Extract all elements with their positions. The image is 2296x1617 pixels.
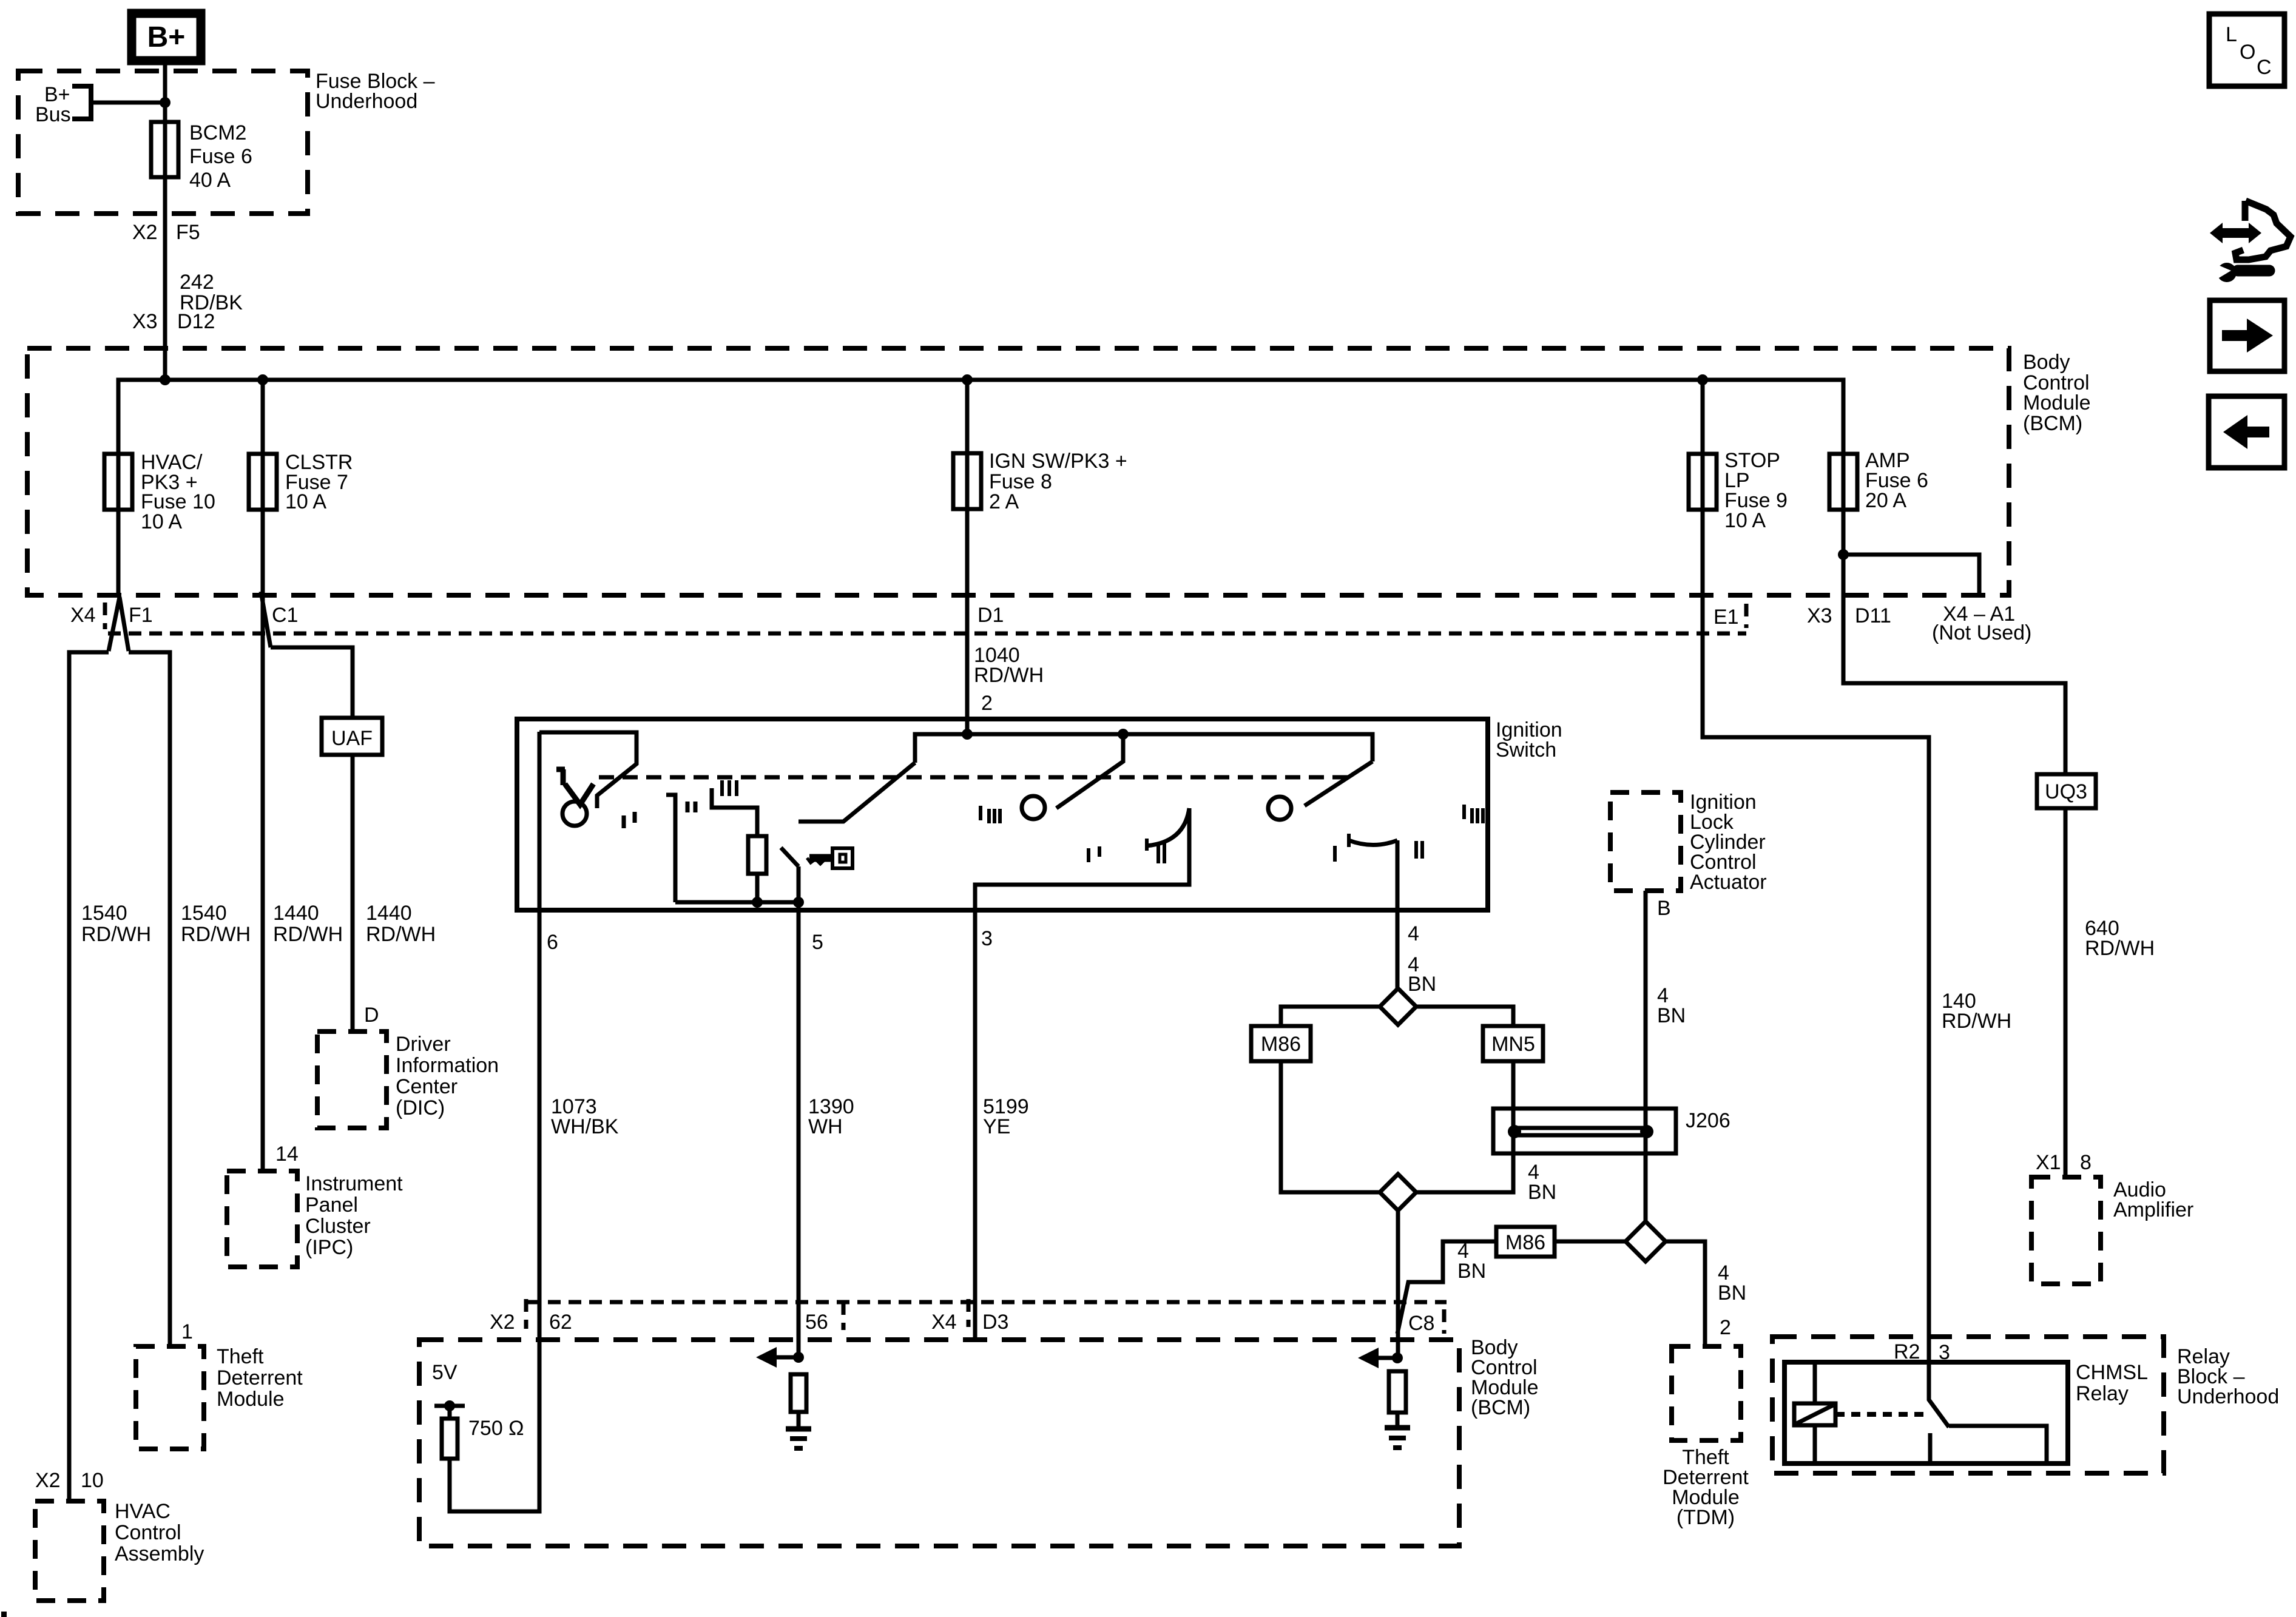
svg-text:BN: BN <box>1408 973 1436 996</box>
svg-text:B: B <box>1657 897 1671 920</box>
wire to ground 56 <box>797 1412 801 1428</box>
module box Audio Amplifier <box>2031 1177 2193 1284</box>
wire label 640 RD/WH <box>2085 917 2155 960</box>
svg-text:Switch: Switch <box>1496 738 1556 761</box>
ignition switch box <box>517 719 1488 910</box>
svg-text:X4: X4 <box>70 604 96 627</box>
svg-text:M86: M86 <box>1505 1231 1545 1254</box>
wire actuator B to diamond3 <box>1644 891 1648 1221</box>
svg-text:C: C <box>2257 56 2272 79</box>
position ticks III section4 <box>1464 805 1483 823</box>
svg-text:L: L <box>2226 23 2237 46</box>
ground BCM 56 <box>786 1429 811 1448</box>
fuse STOP LP Fuse 9 <box>1689 449 1788 532</box>
svg-text:Underhood: Underhood <box>316 90 417 113</box>
wire label 1440 RD/WH (right) <box>366 902 436 946</box>
label Relay Block Underhood <box>2177 1345 2279 1408</box>
svg-text:IGN SW/PK3 +: IGN SW/PK3 + <box>989 450 1127 473</box>
junction dot resistor <box>752 897 763 908</box>
wire M86 down to diamond2 <box>1281 1061 1380 1192</box>
common circle section4 <box>1268 797 1291 820</box>
svg-text:2 A: 2 A <box>989 490 1019 513</box>
contact arc section4 <box>1349 840 1397 845</box>
svg-text:D11: D11 <box>1855 604 1891 627</box>
wire UAF to DIC <box>351 755 355 1031</box>
node 5V <box>432 1361 465 1419</box>
wire diamond3 to TDM pin2 <box>1666 1241 1705 1346</box>
connector tick X4 <box>967 1299 971 1327</box>
relay block dashed box <box>1772 1337 2164 1473</box>
key release icon <box>556 769 593 805</box>
resistor BCM C8 <box>1389 1371 1406 1413</box>
wire pin3 <box>975 808 1189 1340</box>
svg-text:Instrument: Instrument <box>305 1172 403 1195</box>
svg-text:RD/WH: RD/WH <box>1942 1010 2011 1033</box>
switch contact stub section2 <box>781 848 799 866</box>
wire B+ to bus <box>163 61 167 380</box>
switch lever section2 <box>799 763 915 822</box>
svg-text:E1: E1 <box>1714 606 1739 629</box>
svg-text:242: 242 <box>180 271 214 294</box>
svg-text:62: 62 <box>549 1311 572 1334</box>
svg-text:10 A: 10 A <box>1724 509 1766 532</box>
splice diamond top <box>1380 988 1416 1025</box>
wire diamond to MN5 <box>1416 1007 1513 1026</box>
svg-text:20 A: 20 A <box>1865 489 1906 512</box>
switch gang dashed line <box>599 775 1353 780</box>
svg-text:BN: BN <box>1657 1004 1686 1027</box>
icon arrow left box <box>2209 396 2284 468</box>
svg-text:Information: Information <box>396 1054 499 1077</box>
svg-text:X3: X3 <box>132 310 158 333</box>
module box Theft Deterrent Module TDM <box>1663 1346 1749 1529</box>
svg-text:1: 1 <box>181 1320 193 1343</box>
pin labels X2 F5 <box>132 221 200 244</box>
splice box M86 <box>1251 1026 1311 1061</box>
splice V at F1 <box>109 597 129 651</box>
svg-text:10 A: 10 A <box>141 510 182 533</box>
svg-text:F5: F5 <box>176 221 200 244</box>
BCM bottom dashed box <box>419 1340 1459 1546</box>
wire label 1540 RD/WH (left) <box>81 902 151 946</box>
svg-text:Center: Center <box>396 1075 458 1098</box>
BCM top dashed box <box>27 348 2009 595</box>
splice box M86 second <box>1496 1227 1555 1257</box>
svg-text:(BCM): (BCM) <box>1471 1396 1530 1419</box>
wire STOP LP fuse branch <box>1703 380 1929 1362</box>
power symbol B+ <box>132 13 201 61</box>
wire diamond2 to C8 <box>1396 1210 1400 1358</box>
svg-text:X2: X2 <box>35 1469 61 1492</box>
relay contact tick <box>1928 1433 1933 1463</box>
label Ignition Switch <box>1496 718 1562 761</box>
svg-text:X1: X1 <box>2036 1151 2061 1174</box>
wire MN5 down to diamond2 <box>1416 1061 1513 1192</box>
wire to ground C8 <box>1396 1413 1400 1426</box>
svg-text:X2: X2 <box>490 1311 515 1334</box>
wire label 4 BN left <box>1457 1240 1486 1283</box>
junction dot pin2 rail <box>962 729 973 740</box>
relay CHMSL box <box>1784 1362 2068 1463</box>
svg-text:HVAC: HVAC <box>115 1500 171 1523</box>
wire HVAC fuse branch <box>116 454 121 597</box>
option box UQ3 <box>2037 774 2096 808</box>
wire diamond to M86 <box>1281 1007 1380 1026</box>
svg-text:6: 6 <box>547 931 558 954</box>
svg-text:CHMSL: CHMSL <box>2076 1361 2148 1384</box>
label CHMSL Relay <box>2076 1361 2148 1405</box>
wire label 5199 YE <box>983 1095 1029 1138</box>
wire label 242 RD/BK <box>180 271 243 314</box>
svg-text:Module: Module <box>2023 391 2091 414</box>
svg-text:X4: X4 <box>931 1311 957 1334</box>
position ticks I section3 <box>1089 846 1099 862</box>
fuse block underhood dashed box <box>18 71 308 214</box>
wire pin5 to BCM 56 <box>797 902 801 1358</box>
module box Ignition Lock Cylinder Control Actuator <box>1610 791 1767 894</box>
wire label 4 BN under J206 <box>1528 1161 1556 1204</box>
module box DIC <box>317 1031 499 1128</box>
svg-text:WH: WH <box>808 1115 843 1138</box>
label Body Control Module BCM bottom <box>1471 1336 1539 1419</box>
arrow splice 56 <box>756 1347 804 1368</box>
fuse BCM2 Fuse 6 40A <box>151 121 252 192</box>
svg-text:BN: BN <box>1457 1260 1486 1283</box>
wire label 1040 RD/WH <box>974 644 1044 687</box>
wire 1440 RD/WH right to UAF <box>271 647 353 718</box>
svg-text:(BCM): (BCM) <box>2023 412 2082 435</box>
svg-text:5V: 5V <box>432 1361 458 1384</box>
wire pin4 <box>1396 840 1400 988</box>
svg-text:4: 4 <box>1408 922 1419 945</box>
svg-text:(Not Used): (Not Used) <box>1932 621 2031 644</box>
svg-text:Body: Body <box>2023 351 2070 374</box>
svg-text:3: 3 <box>981 927 993 950</box>
wire label 4 BN pin4 <box>1408 953 1436 996</box>
wire label 1390 WH <box>808 1095 854 1138</box>
contact III wire section2 <box>712 788 757 836</box>
svg-text:1440: 1440 <box>273 902 319 925</box>
connector tick C8 <box>1442 1309 1447 1334</box>
common circle section3 <box>1022 796 1045 819</box>
icon double arrow wrench <box>2210 201 2291 282</box>
svg-text:D1: D1 <box>977 604 1004 627</box>
svg-text:MN5: MN5 <box>1491 1033 1535 1056</box>
resistor ACCY section2 <box>748 836 766 874</box>
junction dot bus-IGN <box>962 374 973 385</box>
splice diamond bottom <box>1380 1174 1416 1210</box>
svg-text:Fuse 6: Fuse 6 <box>189 145 252 168</box>
wire label 1540 RD/WH (right) <box>181 902 251 946</box>
svg-text:BCM2: BCM2 <box>189 121 246 144</box>
common circle section1 <box>562 802 587 826</box>
svg-text:14: 14 <box>275 1143 299 1166</box>
fuse AMP Fuse 6 20A <box>1829 449 1928 512</box>
position ticks II section4 <box>1416 841 1422 859</box>
position ticks III section2 <box>722 780 737 796</box>
arrow splice C8 <box>1358 1348 1403 1368</box>
icon LOC box <box>2209 14 2284 86</box>
connector tick X2 <box>524 1299 528 1329</box>
svg-text:1440: 1440 <box>366 902 412 925</box>
relay output wire <box>1949 1426 2047 1463</box>
position ticks I section1 <box>624 812 635 828</box>
wire M86 second to C8 riser <box>1397 1241 1496 1334</box>
resistor BCM 56 <box>791 1374 806 1412</box>
svg-text:Driver: Driver <box>396 1033 451 1056</box>
relay switch lever <box>1929 1362 1949 1427</box>
svg-text:D3: D3 <box>982 1311 1008 1334</box>
wire 1540 RD/WH left to HVAC assembly <box>69 652 109 1501</box>
svg-text:Amplifier: Amplifier <box>2113 1198 2193 1221</box>
junction dot bus-STOP <box>1697 374 1708 385</box>
svg-text:5: 5 <box>812 931 823 954</box>
connector line X2/X4 dotted bottom <box>527 1300 1447 1305</box>
svg-text:1540: 1540 <box>181 902 227 925</box>
svg-text:RD/WH: RD/WH <box>974 664 1044 687</box>
svg-text:D12: D12 <box>177 310 215 333</box>
junction dot bus-B+ <box>160 374 171 385</box>
svg-text:RD/WH: RD/WH <box>273 923 343 946</box>
wire pin6 to BCM 62 <box>450 732 539 1511</box>
splice box MN5 <box>1483 1026 1543 1061</box>
svg-text:O: O <box>2240 41 2255 64</box>
junction dot AMP X4 branch <box>1838 549 1849 560</box>
svg-text:RD/WH: RD/WH <box>81 923 151 946</box>
svg-text:2: 2 <box>981 692 993 715</box>
wire IGN fuse branch <box>965 380 970 734</box>
svg-text:UAF: UAF <box>331 727 373 750</box>
position ticks II section3 <box>1158 843 1164 863</box>
wire X4-A1 not used stub <box>1843 555 1979 596</box>
pin labels X3 D12 <box>132 310 215 333</box>
svg-text:F1: F1 <box>129 604 153 627</box>
switch lever section3 <box>1056 734 1123 808</box>
svg-text:X2: X2 <box>132 221 158 244</box>
ground BCM C8 <box>1385 1428 1410 1448</box>
label Body Control Module BCM <box>2023 351 2091 435</box>
svg-text:Relay: Relay <box>2076 1382 2129 1405</box>
inline connector J206 <box>1493 1109 1676 1153</box>
svg-text:Assembly: Assembly <box>115 1542 204 1565</box>
splice diamond third <box>1626 1221 1666 1261</box>
svg-text:(TDM): (TDM) <box>1676 1506 1735 1529</box>
svg-text:B+: B+ <box>147 21 186 53</box>
wire AMP fuse branch <box>1843 380 2065 1177</box>
tick at arc section3 <box>1145 839 1149 851</box>
svg-text:10: 10 <box>81 1469 104 1492</box>
svg-text:WH/BK: WH/BK <box>551 1115 619 1138</box>
svg-text:BN: BN <box>1718 1281 1746 1305</box>
svg-text:10 A: 10 A <box>285 490 326 513</box>
wire label 1440 RD/WH (left) <box>273 902 343 946</box>
tick at arc section4 <box>1347 834 1351 847</box>
splice V at C1 <box>261 592 271 647</box>
junction dot bus-CLSTR <box>257 374 268 385</box>
wire CLSTR fuse branch <box>261 380 265 1171</box>
svg-text:RD/WH: RD/WH <box>2085 937 2155 960</box>
svg-text:(IPC): (IPC) <box>305 1236 353 1259</box>
junction dot B+ bus tap <box>160 97 171 108</box>
svg-text:750 Ω: 750 Ω <box>468 1417 524 1440</box>
svg-text:YE: YE <box>983 1115 1010 1138</box>
svg-text:X3: X3 <box>1807 604 1832 627</box>
relay coil <box>1794 1362 1835 1463</box>
svg-text:Theft: Theft <box>217 1345 264 1368</box>
svg-text:Panel: Panel <box>305 1193 358 1217</box>
module box IPC <box>227 1171 403 1267</box>
label Fuse Block Underhood <box>316 70 435 113</box>
wire label 4 BN right <box>1718 1261 1746 1305</box>
wire section2 bottom <box>675 900 799 905</box>
svg-text:40 A: 40 A <box>189 169 231 192</box>
svg-text:RD/WH: RD/WH <box>366 923 436 946</box>
svg-text:Underhood: Underhood <box>2177 1385 2279 1408</box>
wire diamond3 to M86 second <box>1555 1240 1626 1244</box>
wire resistor to junction <box>755 874 760 902</box>
svg-text:8: 8 <box>2080 1151 2092 1174</box>
wire pin6 riser <box>539 732 636 808</box>
position ticks III left of section3 <box>981 806 1000 823</box>
svg-text:Actuator: Actuator <box>1690 871 1767 894</box>
contact arc section3 <box>1147 808 1189 846</box>
pin labels X1 8 <box>2036 1151 2092 1174</box>
svg-text:(DIC): (DIC) <box>396 1096 445 1119</box>
contact II wire section2 <box>666 795 675 902</box>
position tick I section4 <box>1333 846 1337 862</box>
svg-text:UQ3: UQ3 <box>2045 780 2087 803</box>
wire BCM feed bus <box>118 380 1843 454</box>
wire label 140 RD/WH <box>1942 990 2011 1033</box>
svg-text:2: 2 <box>1720 1316 1731 1339</box>
pin labels X2 10 <box>35 1469 104 1492</box>
wire rail inside switch <box>915 734 1373 763</box>
relay actuator dashed line <box>1835 1412 1925 1417</box>
svg-text:Deterrent: Deterrent <box>217 1366 303 1389</box>
svg-text:Cluster: Cluster <box>305 1215 371 1238</box>
fuse CLSTR Fuse 7 <box>249 451 353 513</box>
connector tick 56 <box>842 1302 846 1330</box>
page artifact dot <box>1 1612 7 1617</box>
wire 1540 RD/WH right to TDM <box>129 652 170 1346</box>
svg-text:Control: Control <box>115 1521 181 1544</box>
svg-text:RD/WH: RD/WH <box>181 923 251 946</box>
module box HVAC Control Assembly <box>35 1500 204 1601</box>
position ticks II section2 <box>687 802 695 812</box>
svg-text:56: 56 <box>805 1311 828 1334</box>
svg-text:C1: C1 <box>272 604 298 627</box>
resistor 750 ohm <box>442 1417 524 1459</box>
svg-text:1540: 1540 <box>81 902 127 925</box>
connector tick E1 <box>1744 604 1749 628</box>
svg-text:M86: M86 <box>1261 1033 1301 1056</box>
fuse IGN SW/PK3+ Fuse 8 <box>953 450 1127 513</box>
node B+ Bus <box>35 83 165 126</box>
module box Theft Deterrent Module <box>136 1345 303 1449</box>
svg-text:Module: Module <box>217 1388 285 1411</box>
svg-text:D: D <box>364 1004 379 1027</box>
svg-text:J206: J206 <box>1686 1109 1730 1132</box>
wire label 1073 WH/BK <box>551 1095 619 1138</box>
switch lever section4 <box>1305 761 1373 806</box>
connector tick X4 <box>103 603 107 629</box>
junction dot pin5 <box>793 897 804 908</box>
svg-text:C8: C8 <box>1408 1312 1434 1335</box>
wire label 4 BN actuator <box>1657 984 1686 1027</box>
junction dot rail section3 <box>1118 729 1129 740</box>
key icon <box>807 848 853 868</box>
fuse HVAC/PK3+ Fuse 10 <box>104 451 215 533</box>
pin label X4-A1 Not Used <box>1932 603 2031 644</box>
svg-text:Bus: Bus <box>35 103 71 126</box>
option box UAF <box>322 718 382 755</box>
wire section2 pivot <box>797 866 801 902</box>
connector line X4/C1/D1/E1 dotted <box>108 632 1746 636</box>
svg-text:BN: BN <box>1528 1181 1556 1204</box>
icon arrow right box <box>2210 300 2284 371</box>
